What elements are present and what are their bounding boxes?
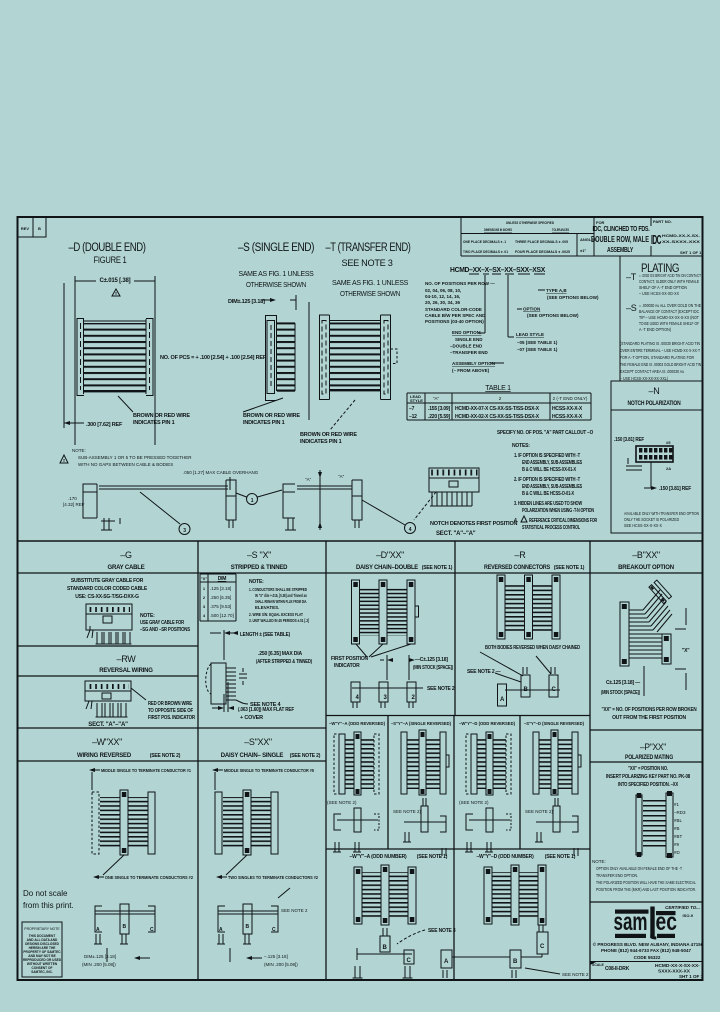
svg-text:POLARIZATION WHEN USING -T-N O: POLARIZATION WHEN USING -T-N OPTION [522, 508, 594, 514]
svg-text:UNLESS OTHERWISE SPECIFIED: UNLESS OTHERWISE SPECIFIED [506, 220, 554, 225]
svg-text:TWO SINGLES TO TERMINATE CONDU: TWO SINGLES TO TERMINATE CONDUCTORS #2 [228, 875, 318, 880]
subcol headers [329, 721, 584, 726]
dimension C±.015 [0.38] [75, 275, 155, 445]
svg-text:SINGLE END: SINGLE END [455, 337, 483, 342]
assembly far right connector [338, 474, 416, 534]
svg-text:C08-II-DRK: C08-II-DRK [605, 966, 630, 972]
svg-text:THE FEMALE END IS .00003 GOLD: THE FEMALE END IS .00003 GOLD BRIGHT ACI… [620, 362, 702, 367]
callout text: type A,B [538, 288, 599, 300]
svg-text:4: 4 [409, 527, 412, 533]
svg-text:ONLY THE SOCKET IS POLARIZED: ONLY THE SOCKET IS POLARIZED [624, 517, 680, 522]
-G body text [67, 578, 148, 600]
svg-text:POSITION FROM THE (MKR) AND LA: POSITION FROM THE (MKR) AND LAST POSITIO… [596, 887, 696, 892]
svg-text:INSERT POLARIZING KEY PART NO.: INSERT POLARIZING KEY PART NO. PK-08 [606, 774, 690, 780]
svg-text:OPTION ONLY AVAILABLE ON FEMAL: OPTION ONLY AVAILABLE ON FEMALE END OF T… [596, 866, 682, 871]
svg-text:(SEE OPTIONS BELOW): (SEE OPTIONS BELOW) [547, 295, 599, 300]
svg-text:TO BE USED WITH FEMALE SHELF O: TO BE USED WITH FEMALE SHELF OF [639, 321, 699, 326]
svg-text:ELEVATES.: ELEVATES. [255, 605, 279, 610]
svg-text:B & C WILL BE HCSS-O-01-X: B & C WILL BE HCSS-O-01-X [522, 491, 575, 497]
svg-text:NO. OF PCS = + .100 [2.54] + .: NO. OF PCS = + .100 [2.54] + .100 [2.54]… [160, 355, 267, 361]
svg-text:TO OPPOSITE SIDE OF: TO OPPOSITE SIDE OF [148, 708, 193, 714]
connector figure -S [266, 315, 296, 401]
svg-text:POSITIONS (03-40 OPTION): POSITIONS (03-40 OPTION) [425, 319, 484, 324]
middle assembly note with triangle [60, 448, 192, 467]
svg-text:from this print.: from this print. [23, 901, 74, 910]
svg-text:(SEE NOTE 2): (SEE NOTE 2) [327, 800, 357, 805]
svg-text:ONE SINGLE TO TERMINATE CONDUC: ONE SINGLE TO TERMINATE CONDUCTORS #2 [105, 875, 193, 880]
svg-text:BROWN OR RED WIRE: BROWN OR RED WIRE [133, 413, 190, 419]
col2 lower note [216, 855, 318, 880]
callout text: assembly option [452, 361, 504, 373]
svg-text:#B: #B [674, 826, 680, 831]
svg-text:PART NO.: PART NO. [653, 219, 672, 224]
subcol1 figure [334, 732, 379, 795]
svg-text:NOTCH DENOTES FIRST POSITION: NOTCH DENOTES FIRST POSITION [430, 521, 518, 527]
svg-text:(SEE NOTE 2): (SEE NOTE 2) [459, 800, 489, 805]
svg-text:.155 [3.09]: .155 [3.09] [428, 406, 451, 412]
svg-text:SEE NOTE 2: SEE NOTE 2 [427, 686, 455, 692]
col1 schematic [94, 904, 155, 944]
proprietary box [22, 922, 62, 977]
-B figure [620, 580, 690, 690]
svg-text:–TRANSFER END: –TRANSFER END [450, 350, 489, 355]
-N NOTCH POLARIZATION box [611, 381, 702, 533]
-P text [606, 766, 690, 788]
svg-text:REFERENCE CRITICAL DIMENSIONS: REFERENCE CRITICAL DIMENSIONS FOR [529, 518, 597, 524]
svg-text:"A": "A" [338, 474, 345, 479]
connector figure -D [77, 319, 153, 396]
samtec address [593, 941, 704, 960]
svg-text:TIP – USE HCMD-XX-XX-S-XX (NOT: TIP – USE HCMD-XX-XX-S-XX (NOT [639, 315, 699, 320]
section -S'X' header [231, 550, 288, 571]
plating -T text [626, 272, 701, 296]
svg-text:(SEE NOTE 1): (SEE NOTE 1) [554, 565, 585, 571]
svg-text:SEE NOTE 2: SEE NOTE 2 [281, 908, 308, 913]
svg-text:–W"Y"–D (ODD REVERSED): –W"Y"–D (ODD REVERSED) [459, 721, 515, 726]
subcol2 schematic [393, 798, 446, 856]
svg-text:NOTE:: NOTE: [140, 613, 155, 619]
section -R header [484, 550, 585, 571]
svg-text:SEE NOTE 2): SEE NOTE 2) [525, 809, 554, 814]
widecol1 header [350, 854, 448, 860]
svg-text:(SEE NOTE 1): (SEE NOTE 1) [545, 854, 576, 860]
svg-text:END ASSEMBLY, SUB-ASSEMBLIES: END ASSEMBLY, SUB-ASSEMBLIES [522, 460, 583, 466]
svg-text:USE GRAY CABLE FOR: USE GRAY CABLE FOR [140, 620, 184, 626]
col1 header -W'XX' [77, 737, 181, 759]
do not scale note [23, 889, 74, 910]
svg-text:HCMD-XX-07-X CS-XX-SS-T/SS-DS: HCMD-XX-07-X CS-XX-SS-T/SS-DSX-X [455, 406, 540, 412]
svg-text:POLARIZED MATING: POLARIZED MATING [625, 755, 673, 761]
svg-text:–D (DOUBLE END): –D (DOUBLE END) [69, 242, 147, 254]
svg-text:FIGURE 1: FIGURE 1 [94, 255, 127, 265]
svg-text:NOTE:: NOTE: [249, 579, 264, 585]
svg-text:REV: REV [21, 226, 30, 231]
-B dims [601, 666, 644, 696]
-G connector top view figure [86, 604, 132, 644]
subcol3 figure [466, 732, 511, 795]
-R schematic [467, 652, 560, 706]
section -RW header [99, 654, 153, 674]
BROWN OR RED WIRE note for -S [243, 398, 300, 426]
svg-text:.150 [3.81] REF: .150 [3.81] REF [659, 486, 692, 492]
svg-text:SHELF OF A -T END OPTION: SHELF OF A -T END OPTION [639, 285, 687, 290]
svg-text:A: A [96, 927, 100, 933]
svg-text:(STANDARD PLATING IS .00030 BR: (STANDARD PLATING IS .00030 BRIGHT ACID … [620, 341, 700, 346]
col2 top note [212, 768, 314, 790]
svg-text:ASSEMBLY OPTION: ASSEMBLY OPTION [452, 361, 495, 366]
subcol3 schematic [459, 800, 511, 852]
col1 ladder figure [92, 790, 155, 855]
svg-text:"A": "A" [305, 477, 312, 482]
svg-text:CONTACT, SLDER ONLY WITH FEMAL: CONTACT, SLDER ONLY WITH FEMALE [639, 279, 699, 284]
svg-text:GRAY CABLE: GRAY CABLE [107, 565, 144, 571]
plating standard note [620, 341, 702, 381]
svg-text:HCSS-XX-X-X: HCSS-XX-X-X [552, 406, 583, 412]
svg-text:.170: .170 [68, 496, 77, 501]
svg-text:HCMD-XX-02-X CS-XX-SS-T/SS-DS: HCMD-XX-02-X CS-XX-SS-T/SS-DSX-X [455, 414, 540, 420]
svg-text:FOUR PLACE DECIMALS ± .0025: FOUR PLACE DECIMALS ± .0025 [515, 249, 571, 254]
svg-text:(SEE NOTE 1): (SEE NOTE 1) [422, 565, 453, 571]
svg-text:–R: –R [515, 550, 527, 560]
svg-text:–W"Y"–A (ODD REVERSED): –W"Y"–A (ODD REVERSED) [329, 721, 385, 726]
header -S (SINGLE END) [238, 242, 315, 289]
svg-text:IN "X" dim +.015, [0.38] and T: IN "X" dim +.015, [0.38] and Tinned an [255, 593, 307, 598]
svg-text:SAME AS FIG. 1 UNLESS: SAME AS FIG. 1 UNLESS [332, 280, 409, 287]
subcol1 schematic [327, 800, 379, 852]
svg-text:SHT 1 OF 1: SHT 1 OF 1 [680, 250, 702, 255]
col1 lower note [93, 855, 193, 880]
svg-text:= .0002 GS BRIGHT ACID TIN ON: = .0002 GS BRIGHT ACID TIN ON CONTACT [639, 273, 701, 278]
svg-text:SCALE: SCALE [592, 963, 605, 967]
svg-text:– USE HCSS-XX-XD-XX: – USE HCSS-XX-XD-XX [639, 291, 679, 296]
svg-text:04-10, 12, 14, 16,: 04-10, 12, 14, 16, [425, 294, 460, 299]
svg-text:–RD3: –RD3 [674, 810, 686, 815]
svg-text:–.125 [3.18]: –.125 [3.18] [264, 954, 288, 959]
-D'XX' ladder figure [352, 580, 419, 644]
svg-text:DIM±.125 [3.18]: DIM±.125 [3.18] [228, 299, 265, 305]
svg-text:#5: #5 [666, 440, 671, 445]
widecol1 schematic [353, 928, 456, 978]
svg-text:2 (-T END ONLY): 2 (-T END ONLY) [553, 396, 588, 401]
svg-text:TOLERANCES: TOLERANCES [552, 227, 569, 232]
svg-text:–S"Y"–A (SINGLE REVERSED): –S"Y"–A (SINGLE REVERSED) [391, 721, 451, 726]
callout text: no. of positions [425, 281, 495, 324]
svg-text:(SEE OPTIONS BELOW): (SEE OPTIONS BELOW) [527, 313, 579, 318]
callout leader verticals [478, 275, 514, 337]
assembly middle connector pair [140, 480, 282, 535]
svg-text:DIM±.125 [3.18]: DIM±.125 [3.18] [84, 954, 116, 959]
svg-text:–RW: –RW [117, 654, 137, 664]
svg-text:MIDDLE SINGLE TO TERMINATE CON: MIDDLE SINGLE TO TERMINATE CONDUCTOR #5 [224, 768, 314, 773]
widecol2 header [476, 854, 575, 860]
assembly right pair [283, 470, 352, 530]
col1 bottom dim [82, 948, 150, 967]
svg-text:ONE PLACE DECIMALS ± .1: ONE PLACE DECIMALS ± .1 [463, 239, 507, 244]
section -D'XX' header [356, 550, 453, 571]
svg-text:1: 1 [251, 498, 254, 504]
svg-text:sam: sam [614, 908, 648, 936]
svg-text:"X": "X" [682, 648, 690, 654]
drawing frame [18, 217, 703, 980]
svg-text:ISO-9: ISO-9 [683, 913, 694, 918]
subcol4 figure [533, 730, 581, 795]
svg-text:1. CONDUCTORS SHALL BE STRIPPE: 1. CONDUCTORS SHALL BE STRIPPED [249, 587, 308, 592]
svg-text:–S (SINGLE END): –S (SINGLE END) [238, 242, 315, 254]
svg-text:(MIN .200 [5.08]): (MIN .200 [5.08]) [264, 962, 298, 967]
svg-text:.220 [5.59]: .220 [5.59] [428, 414, 451, 420]
PLATING column [620, 256, 679, 381]
svg-text:B & C WILL BE HCSS-XX-01-X: B & C WILL BE HCSS-XX-01-X [522, 467, 577, 473]
callout text: option [517, 307, 579, 319]
-G note [140, 613, 191, 633]
svg-text:– USE HCSS-XX-XX-XX-XXL): – USE HCSS-XX-XX-XX-XXL) [620, 376, 668, 381]
svg-text:02, 04, 06, 08, 10,: 02, 04, 06, 08, 10, [425, 288, 461, 293]
svg-text:–W"XX": –W"XX" [92, 737, 122, 747]
header -D (DOUBLE END) [69, 242, 147, 265]
svg-text:IDC, CLINCHED TO FDS.: IDC, CLINCHED TO FDS. [593, 226, 650, 233]
svg-text:–W"Y"–D (ODD NUMBER): –W"Y"–D (ODD NUMBER) [476, 854, 534, 860]
svg-text:SEE NOTE 2 —: SEE NOTE 2 — [467, 669, 501, 675]
svg-text:SPECIFY NO. OF POS. "A" PART C: SPECIFY NO. OF POS. "A" PART CALLOUT –O [497, 430, 593, 436]
section -B'XX' header [618, 550, 674, 571]
svg-text:–D"XX": –D"XX" [376, 550, 404, 560]
widecol2 schematic [441, 925, 589, 978]
svg-text:STYLE: STYLE [410, 398, 423, 403]
svg-text:(.063 [1.60]) MAX FLAT REF: (.063 [1.60]) MAX FLAT REF [238, 707, 295, 713]
svg-text:STANDARD COLOR CODED CABLE: STANDARD COLOR CODED CABLE [67, 586, 148, 592]
svg-text:–05 (SEE TABLE 1): –05 (SEE TABLE 1) [517, 340, 558, 345]
svg-text:–B"XX": –B"XX" [632, 550, 660, 560]
svg-text:BREAKOUT OPTION: BREAKOUT OPTION [618, 565, 674, 571]
svg-text:THREE PLACE DECIMALS ± .005: THREE PLACE DECIMALS ± .005 [515, 239, 569, 244]
TABLE 1 [407, 385, 591, 420]
svg-text:20, 26, 30, 34, 36: 20, 26, 30, 34, 36 [425, 300, 461, 305]
svg-text:WITH NO GAPS BETWEEN CABLE & B: WITH NO GAPS BETWEEN CABLE & BODIES [78, 462, 173, 467]
svg-text:INTO SPECIFIED POSITION. –XX: INTO SPECIFIED POSITION. –XX [618, 782, 679, 788]
svg-text:OUT FROM THE FIRST POSITION: OUT FROM THE FIRST POSITION [612, 715, 686, 721]
sect A-A assembly schematic left connector [63, 484, 228, 530]
-N figure [614, 437, 692, 492]
svg-text:B: B [246, 924, 250, 930]
svg-text:SEE NOTE 2: SEE NOTE 2 [562, 972, 589, 977]
samtec logo block [665, 905, 700, 918]
svg-text:.150 [3.81] REF: .150 [3.81] REF [614, 437, 645, 443]
svg-text:DAISY CHAIN–DOUBLE: DAISY CHAIN–DOUBLE [356, 565, 418, 571]
svg-text:.250 [6.35]: .250 [6.35] [210, 595, 231, 600]
col2 header -S'XX' [221, 737, 321, 759]
svg-text:FOR: FOR [596, 220, 605, 225]
svg-text:AVAILABLE ONLY WITH TRANSFER E: AVAILABLE ONLY WITH TRANSFER END OPTION [624, 511, 699, 516]
svg-text:(– FROM ABOVE): (– FROM ABOVE) [452, 368, 490, 373]
svg-text:STRIPPED & TINNED: STRIPPED & TINNED [231, 565, 288, 571]
svg-text:3. UNIT WALLED IN 45 PERIODS ±: 3. UNIT WALLED IN 45 PERIODS ±.01 [.3] [249, 618, 309, 623]
svg-text:SEE NOTE 3: SEE NOTE 3 [428, 928, 456, 934]
svg-text:(SEE NOTE 1): (SEE NOTE 1) [417, 854, 448, 860]
svg-text:MIDDLE SINGLE TO TERMINATE CON: MIDDLE SINGLE TO TERMINATE CONDUCTOR #1 [101, 768, 191, 773]
rev boxes top-left [18, 217, 47, 237]
svg-text:© PROGRESS BLVD. NEW ALBANY,: © PROGRESS BLVD. NEW ALBANY, INDIANA 471… [593, 941, 704, 947]
svg-text:FIRST POSITION: FIRST POSITION [331, 656, 369, 662]
svg-text:#1: #1 [674, 802, 680, 807]
svg-text:SHALL REMAIN WITHIN FLUX FROM: SHALL REMAIN WITHIN FLUX FROM DIA. [255, 599, 307, 604]
part number callout HCMD-XX-X-SX-XX-SXX-XSX [450, 267, 546, 275]
svg-text:DOUBLE ROW, MALE: DOUBLE ROW, MALE [591, 235, 649, 244]
svg-text:TRANSFER END OPTION.: TRANSFER END OPTION. [596, 873, 638, 878]
svg-text:–07 (SEE TABLE 1): –07 (SEE TABLE 1) [517, 347, 558, 352]
svg-text:LENGTH ± (SEE TABLE): LENGTH ± (SEE TABLE) [240, 632, 290, 638]
svg-text:+ COVER: + COVER [240, 715, 263, 721]
svg-text:CABLE B/W PER SPEC AND: CABLE B/W PER SPEC AND [425, 313, 486, 318]
svg-text:(SEE NOTE 2): (SEE NOTE 2) [290, 753, 321, 759]
svg-text:–SG AND –SR POSITIONS: –SG AND –SR POSITIONS [140, 627, 191, 633]
dim .050 MAX CABLE OVERHANG [183, 470, 259, 490]
svg-text:BROWN OR RED WIRE: BROWN OR RED WIRE [243, 413, 300, 419]
svg-text:"A": "A" [433, 396, 440, 401]
svg-text:REVERSAL WIRING: REVERSAL WIRING [99, 668, 153, 674]
dimension DIM±.125 [3.18] for -S [228, 295, 296, 310]
svg-text:–W"Y"–A (ODD NUMBER): –W"Y"–A (ODD NUMBER) [350, 854, 407, 860]
svg-text:3. HIDDEN LINES ARE USED TO S: 3. HIDDEN LINES ARE USED TO SHOW [514, 501, 582, 507]
-N note [624, 511, 699, 528]
svg-text:–S "X": –S "X" [247, 550, 271, 560]
svg-text:2A: 2A [666, 466, 671, 471]
svg-text:END OPTION:: END OPTION: [452, 330, 482, 335]
svg-text:OTHERWISE SHOWN: OTHERWISE SHOWN [340, 291, 400, 298]
plating -S text [626, 303, 701, 332]
svg-text:Do not scale: Do not scale [23, 889, 68, 898]
svg-text:BROWN OR RED WIRE: BROWN OR RED WIRE [300, 432, 357, 438]
svg-text:.050 [1.27] MAX CABLE OVERHANG: .050 [1.27] MAX CABLE OVERHANG [183, 470, 259, 475]
svg-text:.500 [12.70]: .500 [12.70] [210, 613, 234, 618]
subcol4 schematic [525, 798, 578, 856]
widecol1 ladder figure [354, 865, 416, 925]
svg-text:NOTE:: NOTE: [72, 448, 86, 453]
svg-text:ASSEMBLY: ASSEMBLY [607, 247, 633, 254]
svg-text:RED OR BROWN WIRE: RED OR BROWN WIRE [148, 701, 193, 707]
svg-text:2. IF OPTION IS SPECIFIED WIT: 2. IF OPTION IS SPECIFIED WITH -T [514, 477, 580, 483]
-S'X' cable end figure [206, 663, 282, 708]
svg-text:–S: –S [626, 303, 637, 313]
svg-text:3: 3 [183, 528, 186, 534]
-RW figure [85, 681, 146, 728]
svg-text:–T (TRANSFER END): –T (TRANSFER END) [326, 242, 412, 254]
svg-text:SUB-ASSEMBLY 1 OR 5 TO BE PRES: SUB-ASSEMBLY 1 OR 5 TO BE PRESSED TOGETH… [78, 455, 192, 460]
svg-text:#D: #D [674, 850, 681, 855]
svg-text:BOTH BODIES REVERSED WHEN DAIS: BOTH BODIES REVERSED WHEN DAISY CHAINED [485, 645, 580, 651]
svg-text:.125 [3.18]: .125 [3.18] [210, 586, 231, 591]
svg-text:PHONE (812) 944-6733 FAX (812: PHONE (812) 944-6733 FAX (812) 948-5047 [601, 948, 692, 953]
svg-text:HCMD-XX-X-SX-XX-: HCMD-XX-X-SX-XX- [655, 963, 700, 969]
svg-text:FOR A -T OPTION, STANDARD PLAT: FOR A -T OPTION, STANDARD PLATING FOR [620, 355, 695, 360]
svg-text:TWO PLACE DECIMALS ± .01: TWO PLACE DECIMALS ± .01 [463, 249, 509, 254]
svg-text:C: C [150, 927, 154, 933]
svg-text:SEE HCSS-XX-X-XX-X: SEE HCSS-XX-X-XX-X [624, 523, 662, 528]
svg-text:–G: –G [120, 550, 132, 560]
svg-text:–DOUBLE END: –DOUBLE END [450, 344, 483, 349]
col2 bottom dim [230, 948, 298, 967]
svg-text:XX-SXXX-XXX: XX-SXXX-XXX [662, 239, 700, 244]
NOTES [512, 443, 597, 531]
svg-text:INDICATES PIN 1: INDICATES PIN 1 [243, 420, 285, 426]
dimension .300 [7.62] REF [64, 421, 123, 428]
svg-text:(MIN STOCK [SPACE]): (MIN STOCK [SPACE]) [601, 690, 640, 696]
-P note [592, 859, 696, 892]
svg-text:HCSS-XX-X-X: HCSS-XX-X-X [552, 414, 583, 420]
col1 top note [89, 768, 191, 790]
-D'XX' dims [380, 655, 453, 680]
svg-text:NO. OF POSITIONS PER ROW —: NO. OF POSITIONS PER ROW — [425, 281, 495, 286]
header -T (TRANSFER END) [326, 242, 412, 298]
svg-text:BALANCE OF CONTACT (EXCEPT IDC: BALANCE OF CONTACT (EXCEPT IDC [639, 309, 700, 314]
notch denotes first position + sect A-A figure [414, 468, 518, 537]
svg-text:±1°: ±1° [580, 248, 586, 253]
svg-text:.375 [9.53]: .375 [9.53] [210, 604, 231, 609]
svg-text:OVER ENTIRE TERMINAL – USE HCM: OVER ENTIRE TERMINAL – USE HCMD-XX-X-XX-… [620, 348, 700, 353]
svg-text:1. IF OPTION IS SPECIFIED WIT: 1. IF OPTION IS SPECIFIED WITH -T [514, 453, 580, 459]
svg-text:A: A [219, 927, 223, 933]
svg-text:"XX" = NO. OF POSITIONS PER RO: "XX" = NO. OF POSITIONS PER ROW BROKEN [602, 707, 698, 713]
svg-text:C: C [272, 927, 276, 933]
leader + BROWN OR RED WIRE note for -T [300, 400, 357, 445]
svg-text:SEE NOTE 3: SEE NOTE 3 [342, 258, 393, 268]
vertical extension line left of -D [63, 283, 65, 428]
svg-text:.250 [6.35] MAX DIA: .250 [6.35] MAX DIA [258, 651, 302, 657]
svg-text:SHT 1 OF 1: SHT 1 OF 1 [679, 974, 704, 979]
widecol2 ladder figure [484, 865, 546, 925]
svg-text:SECT. "A"–"A": SECT. "A"–"A" [436, 531, 476, 537]
-P figure [636, 791, 686, 858]
svg-text:(SEE NOTE 2): (SEE NOTE 2) [150, 753, 181, 759]
vertical extension line right of -S [308, 302, 310, 420]
svg-text:NOTES:: NOTES: [512, 443, 530, 449]
callout text: lead style [516, 332, 558, 352]
svg-text:(MIN STOCK [SPACE]): (MIN STOCK [SPACE]) [413, 665, 453, 671]
svg-text:–T: –T [626, 272, 637, 282]
svg-text:SEE NOTE 2): SEE NOTE 2) [393, 809, 422, 814]
svg-text:HCMD–XX–X–SX–XX–SXX–XSX: HCMD–XX–X–SX–XX–SXX–XSX [450, 267, 546, 274]
svg-text:STATISTICAL PROCESS CONTROL: STATISTICAL PROCESS CONTROL [522, 525, 580, 531]
svg-text:–N: –N [649, 386, 660, 396]
col2 schematic [217, 888, 308, 944]
connector figure -T [320, 315, 398, 400]
svg-text:ec: ec [656, 908, 678, 936]
samtec bottom strip [590, 962, 704, 980]
svg-text:NOTCH POLARIZATION: NOTCH POLARIZATION [628, 401, 681, 407]
subcol2 figure [401, 730, 449, 795]
samtec wordmark [614, 907, 678, 940]
svg-text:SECT. "A"–"A": SECT. "A"–"A" [88, 722, 128, 728]
svg-text:(MIN .200 [5.08]): (MIN .200 [5.08]) [82, 962, 116, 967]
first position indicator leaders [331, 644, 411, 669]
col2 ladder figure [215, 790, 278, 855]
svg-text:A -T END OPTION): A -T END OPTION) [639, 327, 671, 332]
svg-text:"XX" = POSITION NO.: "XX" = POSITION NO. [628, 766, 669, 772]
svg-text:FIRST POS. INDICATOR: FIRST POS. INDICATOR [148, 715, 196, 721]
svg-text:–S"Y"–D (SINGLE REVERSED): –S"Y"–D (SINGLE REVERSED) [524, 721, 584, 726]
svg-text:SAMTEC, INC.: SAMTEC, INC. [31, 970, 53, 974]
svg-text:–12: –12 [409, 414, 417, 420]
leader + BROWN OR RED WIRE note for -D [118, 396, 190, 426]
-S'X' notes [249, 579, 309, 623]
-B note [602, 707, 698, 721]
section grid lines [18, 541, 703, 980]
-P header [625, 742, 673, 761]
svg-text:#BL: #BL [674, 818, 683, 823]
svg-text:DAISY CHAIN– SINGLE: DAISY CHAIN– SINGLE [221, 753, 284, 759]
svg-text:STANDARD COLOR-CODE: STANDARD COLOR-CODE [425, 307, 482, 312]
svg-text:END ASSEMBLY, SUB-ASSEMBLIES: END ASSEMBLY, SUB-ASSEMBLIES [522, 484, 583, 490]
svg-text:–P"XX": –P"XX" [640, 742, 666, 752]
